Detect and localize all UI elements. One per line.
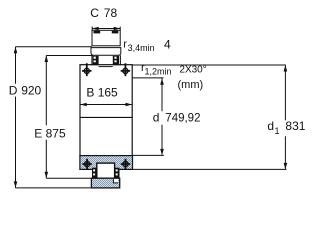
sleeve hatch right xyxy=(112,31,119,34)
svg-text:78: 78 xyxy=(104,6,118,20)
top roller column left xyxy=(93,56,99,65)
svg-text:d: d xyxy=(267,119,274,133)
svg-text:3,4min: 3,4min xyxy=(128,43,155,53)
dimension D xyxy=(9,47,92,188)
top bearing unit: outer edges xyxy=(92,55,121,65)
top shaft washer (rounded bottom corners) xyxy=(91,48,121,56)
svg-text:831: 831 xyxy=(285,119,305,133)
dimension C xyxy=(90,6,120,30)
top roller column right xyxy=(113,56,119,65)
dimension d xyxy=(132,78,200,155)
bottom roller column right xyxy=(115,168,120,179)
svg-text:920: 920 xyxy=(21,83,41,97)
sleeve hatch left xyxy=(94,31,101,34)
svg-text:1,2min: 1,2min xyxy=(145,67,172,77)
block recess seat line xyxy=(99,66,113,68)
svg-text:875: 875 xyxy=(46,126,66,140)
dimension B xyxy=(80,85,132,106)
svg-text:2X30°: 2X30° xyxy=(179,65,206,76)
svg-text:749,92: 749,92 xyxy=(165,112,200,124)
svg-text:C: C xyxy=(90,6,99,20)
svg-text:1: 1 xyxy=(275,126,280,136)
bottom bearing unit: center box xyxy=(97,163,115,178)
bolt symbol bottom-left xyxy=(82,159,91,169)
bottom roller column left xyxy=(92,168,97,179)
bolt symbol top-right xyxy=(121,63,130,76)
svg-text:E: E xyxy=(34,126,42,140)
housing block front view xyxy=(80,65,132,156)
svg-text:165: 165 xyxy=(98,85,118,99)
bolt symbol bottom-right xyxy=(121,159,130,169)
block inner step line xyxy=(80,116,132,118)
label r3,4min xyxy=(123,38,154,53)
svg-text:4: 4 xyxy=(164,37,171,51)
shaded housing washer band xyxy=(80,156,133,170)
bottom shaft washer (shaded) xyxy=(91,178,119,188)
bolt symbol top-left xyxy=(82,63,91,76)
svg-text:(mm): (mm) xyxy=(178,79,204,91)
top sleeve box xyxy=(92,30,120,46)
label r1,2min xyxy=(141,62,172,77)
svg-text:d: d xyxy=(153,110,160,124)
dimension d1 xyxy=(132,65,306,169)
svg-text:D: D xyxy=(9,83,18,97)
svg-text:B: B xyxy=(86,85,94,99)
dimension E xyxy=(34,56,93,179)
